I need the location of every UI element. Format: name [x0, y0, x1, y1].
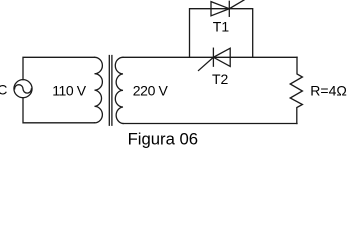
wire secondary top main line [123, 56, 297, 58]
svg-text:R=4Ω: R=4Ω [310, 83, 347, 99]
resistor R [290, 57, 302, 123]
AC source V1 [14, 80, 32, 98]
transformer core [109, 56, 112, 126]
wire primary bottom (left loop bottom side) [23, 98, 95, 123]
wire secondary bottom [123, 123, 297, 125]
svg-text:220 V: 220 V [133, 82, 169, 98]
svg-text:C: C [0, 81, 7, 97]
thyristor T2 [199, 48, 231, 70]
svg-text:T2: T2 [212, 71, 229, 87]
svg-text:110 V: 110 V [52, 82, 87, 98]
svg-text:T1: T1 [213, 18, 230, 34]
wire primary top (left loop top side) [23, 57, 95, 79]
wire T1 branch rectangle [190, 9, 253, 58]
thyristor T1 [211, 0, 244, 16]
transformer primary winding [95, 57, 103, 123]
transformer secondary winding [115, 57, 123, 123]
svg-text:Figura 06: Figura 06 [128, 130, 199, 149]
